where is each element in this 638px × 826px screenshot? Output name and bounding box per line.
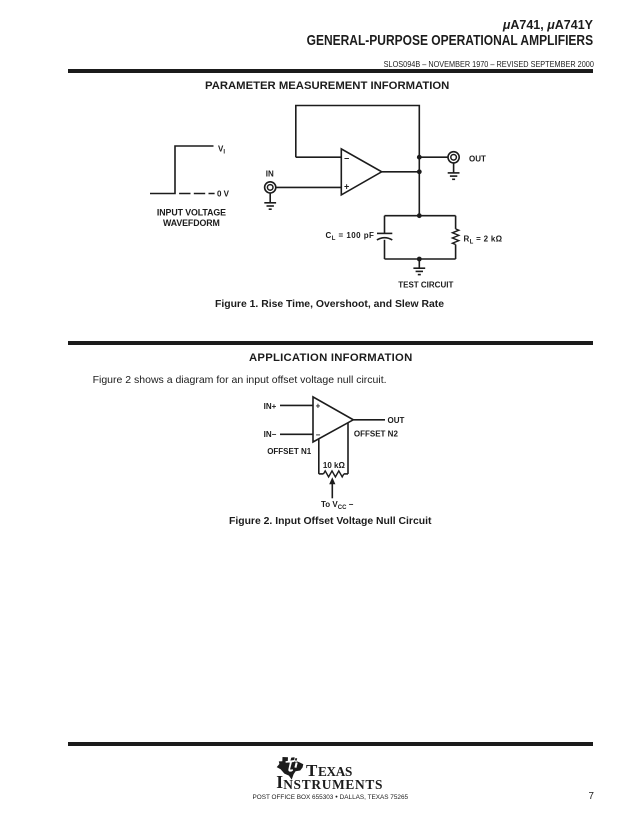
svg-text:To VCC −: To VCC −	[321, 500, 354, 511]
wire capacitor branch upper	[384, 216, 386, 233]
page number	[589, 792, 594, 802]
wire offset N2	[347, 423, 349, 474]
svg-text:+: +	[344, 182, 349, 192]
node: load top junction	[417, 213, 422, 218]
svg-text:TEST CIRCUIT: TEST CIRCUIT	[398, 280, 453, 289]
node: feedback/output junction upper	[417, 155, 422, 160]
svg-text:+: +	[316, 402, 321, 411]
header document number line	[384, 60, 594, 68]
node: output junction	[417, 169, 422, 174]
output terminal OUT	[448, 152, 459, 163]
footer address line	[253, 795, 409, 801]
input terminal IN	[265, 182, 276, 193]
header title	[307, 33, 593, 48]
resistor RL	[452, 216, 458, 259]
footer rule	[68, 742, 594, 746]
wire IN-	[280, 433, 313, 435]
wire to OUT terminal	[419, 156, 448, 158]
svg-text:IN+: IN+	[264, 402, 277, 411]
wire capacitor branch lower	[384, 240, 386, 259]
figure 1 caption	[215, 300, 444, 310]
svg-text:VI: VI	[218, 144, 225, 155]
section heading: parameter measurement information	[205, 81, 449, 92]
ground at load	[413, 259, 425, 275]
wire op-amp output	[382, 171, 420, 173]
wire inverting input	[296, 156, 342, 158]
input step waveform trace	[150, 146, 214, 194]
svg-text:IN−: IN−	[264, 430, 277, 439]
TI logo INSTRUMENTS text	[276, 774, 283, 792]
header part numbers	[503, 19, 593, 32]
body paragraph	[93, 375, 387, 386]
wire OUT	[353, 419, 385, 421]
wire IN to op-amp noninverting input	[276, 186, 341, 188]
FIGURE 2 SVG	[0, 390, 638, 590]
top rule	[68, 69, 594, 73]
svg-text:OUT: OUT	[469, 154, 486, 163]
FIGURE 1 SVG	[0, 0, 638, 330]
op-amp U1	[341, 149, 381, 195]
potentiometer 10k resistor	[319, 471, 348, 477]
section heading: application information	[249, 353, 412, 364]
wiper arrow stem	[331, 484, 333, 499]
svg-text:IN: IN	[266, 169, 274, 178]
svg-text:INPUT VOLTAGE: INPUT VOLTAGE	[157, 208, 226, 218]
svg-text:OFFSET N2: OFFSET N2	[354, 430, 399, 439]
svg-text:−: −	[316, 430, 321, 439]
TI logo texas glyph	[275, 755, 305, 782]
svg-text:CL = 100 pF: CL = 100 pF	[326, 231, 375, 242]
feedback wire loop	[296, 106, 420, 216]
node: load bottom junction	[417, 257, 422, 262]
load network bottom wire	[385, 258, 456, 260]
svg-text:0 V: 0 V	[217, 190, 230, 199]
ground under IN	[264, 193, 276, 209]
svg-text:RL = 2 kΩ: RL = 2 kΩ	[464, 235, 503, 246]
capacitor CL plates	[377, 233, 392, 240]
TI logo TEXAS text	[306, 762, 317, 779]
svg-text:WAVEFDORM: WAVEFDORM	[163, 218, 220, 228]
wire offset N1	[318, 439, 320, 474]
figure 2 caption	[229, 517, 431, 527]
ground under OUT	[448, 163, 460, 179]
load network top wire	[385, 215, 456, 217]
svg-text:OUT: OUT	[388, 416, 405, 425]
op-amp U2	[313, 397, 353, 442]
0V dashed reference line	[179, 193, 215, 195]
second rule	[68, 341, 594, 345]
svg-text:−: −	[344, 153, 349, 163]
wiper arrow head	[329, 477, 335, 484]
svg-text:10 kΩ: 10 kΩ	[323, 461, 346, 470]
svg-text:OFFSET N1: OFFSET N1	[267, 447, 312, 456]
wire IN+	[280, 404, 313, 406]
